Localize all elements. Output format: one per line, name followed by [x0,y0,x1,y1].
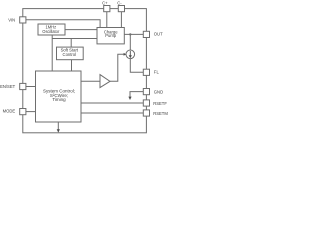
pin MODE [20,109,26,115]
wire oscillator output to charge pump [65,29,97,31]
wire op-amp output to current source [110,54,124,81]
svg-text:Pump: Pump [105,33,117,38]
wire soft start to system control [71,60,73,71]
current source I1 arrow [129,51,132,58]
svg-text:OUT: OUT [154,32,163,37]
wire system control to RSETM [81,112,143,114]
svg-text:C-: C- [117,1,122,6]
wire MODE to system control [26,111,36,113]
svg-text:C+: C+ [102,1,108,6]
wire system control ground [57,122,59,130]
current source I1 [126,50,135,59]
wire system control to RSETF [81,102,143,104]
charge pump block [97,28,124,44]
pin RSETF [143,100,149,106]
pin EN/SET [20,83,26,89]
wire C+ to charge pump [106,12,108,28]
svg-text:RSETM: RSETM [153,111,168,116]
wire GND pin internal ground [130,92,143,98]
system control block [36,71,82,122]
wire branch to soft start top [70,39,72,48]
wire OUT node to current source [129,34,131,50]
arrowhead op-amp to current source [124,53,127,56]
soft start control block [57,47,84,60]
arrowhead system control ground [57,129,60,132]
svg-text:Timing: Timing [52,97,66,102]
pin FL [143,69,149,75]
wire oscillator branch to charge pump [52,38,97,40]
wire EN/SET to system control [26,86,36,88]
svg-text:VIN: VIN [8,17,15,22]
svg-text:RSETF: RSETF [153,101,167,106]
pin OUT [143,31,149,37]
wire system control to op-amp [81,80,100,82]
svg-text:FL: FL [154,70,160,75]
junction node at OUT wire [129,33,131,35]
oscillator block OSC [38,24,65,35]
wire current source to FL [130,59,143,73]
pin GND [143,89,149,95]
svg-text:MODE: MODE [3,109,16,114]
wire C- to charge pump [120,12,122,28]
op-amp buffer A1 [100,75,110,88]
svg-text:Oscillator: Oscillator [42,29,60,34]
wire VIN to charge pump [26,20,100,28]
wire charge pump to OUT [124,33,143,35]
pin C- [118,6,124,12]
IC boundary U1 [23,9,147,133]
pin RSETM [143,110,149,116]
svg-text:GND: GND [154,90,163,95]
wire oscillator to system control [51,35,53,71]
svg-text:Control: Control [63,52,77,57]
pin VIN [20,17,26,23]
pin C+ [104,6,110,12]
arrowhead GND internal ground [128,97,131,100]
svg-text:EN/SET: EN/SET [0,84,16,89]
